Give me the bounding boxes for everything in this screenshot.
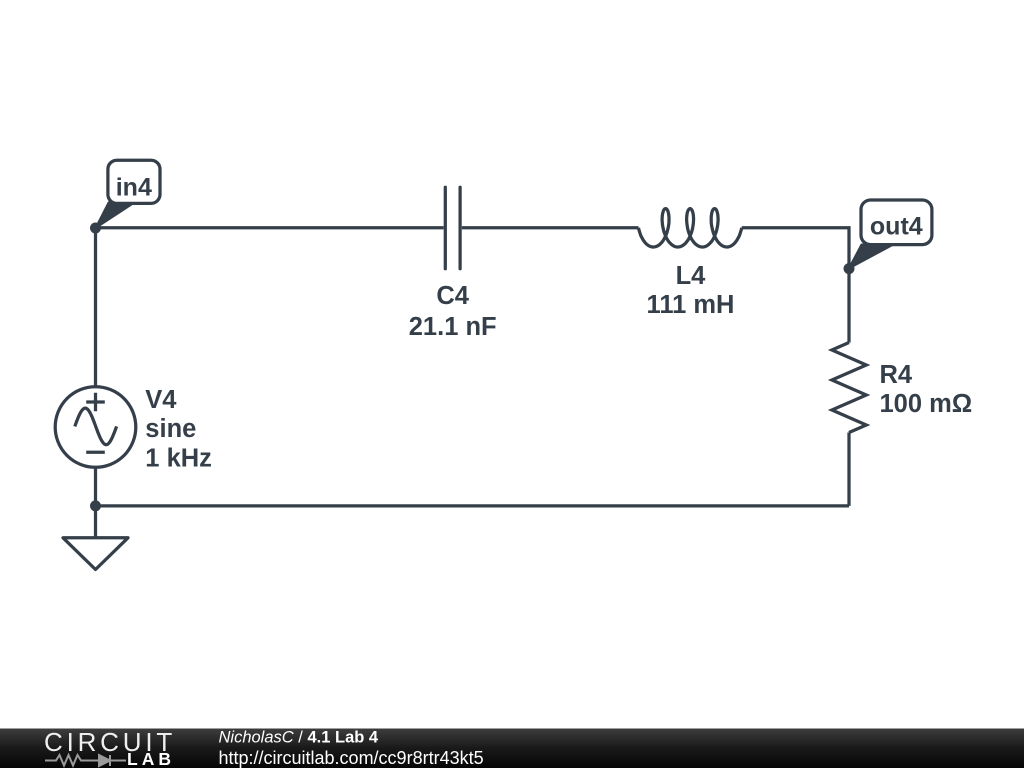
capacitor C4: [445, 187, 460, 268]
wire R4 bottom to bottom-right corner: [847, 433, 850, 506]
node flag out4 tail: [849, 245, 894, 269]
svg-text:111 mH: 111 mH: [647, 291, 735, 319]
wire V4 bottom to bottom node: [94, 467, 97, 506]
svg-text:sine: sine: [145, 415, 196, 443]
node B (out4 junction dot): [844, 263, 855, 274]
wire bottom horizontal: [96, 504, 850, 507]
svg-text:L4: L4: [676, 262, 707, 290]
wire left vertical in4 node to V4 top: [94, 228, 97, 387]
svg-text:1 kHz: 1 kHz: [145, 445, 212, 473]
V4 minus sign: [86, 451, 105, 454]
svg-text:100 mΩ: 100 mΩ: [880, 390, 973, 418]
svg-text:NicholasC / 4.1 Lab 4: NicholasC / 4.1 Lab 4: [219, 729, 379, 747]
node A (in4 junction dot): [90, 223, 101, 234]
svg-text:out4: out4: [870, 213, 923, 241]
svg-text:in4: in4: [116, 174, 152, 202]
svg-text:LAB: LAB: [127, 749, 175, 768]
svg-text:C4: C4: [436, 282, 469, 310]
node C (bottom-left junction dot): [90, 500, 101, 511]
svg-text:V4: V4: [145, 386, 177, 414]
wire C4 right plate to L4: [462, 226, 639, 229]
V4 sine waveform: [75, 408, 117, 445]
resistor R4: [832, 343, 866, 433]
logo resistor-diode squiggle: [45, 755, 126, 766]
node flag in4 tail: [96, 203, 135, 229]
footer bar: [0, 729, 1024, 768]
wire top-left horizontal (in4 to C4 left plate): [96, 226, 444, 229]
svg-text:R4: R4: [880, 361, 913, 389]
voltage source V4 circle: [55, 387, 136, 468]
ground: [63, 538, 128, 570]
node flag in4 box: [108, 160, 160, 203]
V4 plus sign: [86, 393, 105, 411]
node flag out4 box: [861, 200, 932, 245]
wire ground stub: [94, 506, 97, 538]
svg-text:http://circuitlab.com/cc9r8rtr: http://circuitlab.com/cc9r8rtr43kt5: [219, 748, 484, 768]
wire L4 right to top-right corner down to R4 top: [742, 228, 849, 343]
svg-text:21.1 nF: 21.1 nF: [409, 313, 497, 341]
inductor L4: [639, 209, 742, 247]
